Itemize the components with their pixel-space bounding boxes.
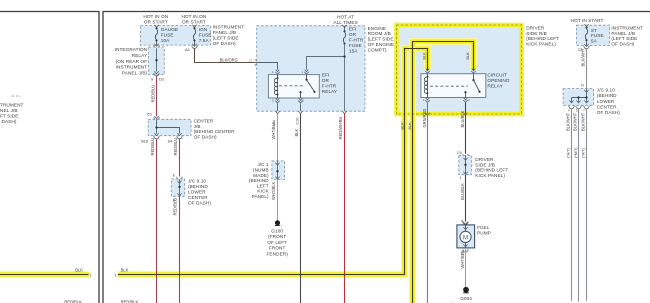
wire inside integration relay [156,48,158,71]
svg-text:FT SIDE: FT SIDE [0,114,18,119]
label EFI OR F-HTR relay [322,73,338,94]
wire WHT/BLK to G100 [277,180,279,221]
svg-text:F-HTR: F-HTR [322,83,337,88]
wire coil to border, connector F4 [277,103,279,111]
svg-text:OR: OR [322,78,330,83]
svg-text:IGN: IGN [199,27,208,32]
wire BLK down to page bottom [300,114,302,303]
label driver side J/B [475,157,508,178]
relay coil [427,74,429,98]
svg-text:BLK/WHT: BLK/WHT [581,112,586,131]
svg-text:C5: C5 [147,112,152,116]
svg-text:BLK: BLK [75,267,83,272]
wire WHT/BLK down to J/C 1 [277,114,279,161]
relay pin connectors top [425,69,429,74]
svg-text:10A: 10A [161,38,170,43]
svg-text:DRIVER: DRIVER [475,157,494,162]
op: circuit opening relay box [421,74,486,98]
integration relay box [149,47,165,75]
svg-text:BLK/WHT: BLK/WHT [580,48,585,67]
core of highlighted wire A [118,49,428,275]
wire RED/BLU continues to page bottom [179,196,181,303]
svg-text:OF DASH): OF DASH) [194,135,217,140]
motor M1 fuel pump [457,225,475,248]
ground G100 [275,220,280,225]
svg-text:FUEL: FUEL [477,225,490,230]
svg-text:(LEFT SIDE: (LEFT SIDE [368,37,394,42]
label instrument panel J/B (right) [611,25,643,46]
svg-text:(NUMB: (NUMB [253,168,269,173]
svg-text:OF DASH): OF DASH) [213,41,236,46]
svg-text:SIDE R/B: SIDE R/B [526,31,547,36]
svg-text:PUMP: PUMP [477,230,491,235]
svg-text:17: 17 [249,59,253,63]
svg-text:J/B: J/B [194,124,201,129]
label fuel pump [477,225,491,235]
svg-text:RED/BLU: RED/BLU [173,198,178,216]
svg-text:INTEGRATION: INTEGRATION [115,47,148,52]
label center J/B [194,118,236,139]
wire BLK/WHT 2 down [578,109,580,302]
svg-text:PANEL J/B): PANEL J/B) [122,70,148,75]
wire BLU/BLK down to driver side J/B [465,103,467,154]
svg-text:(BEHIND: (BEHIND [597,93,617,98]
svg-text:CIRCUIT: CIRCUIT [487,73,507,78]
svg-text:OF DASH): OF DASH) [611,42,634,47]
svg-text:TRUMENT: TRUMENT [0,103,24,108]
label engine room J/B [368,26,395,53]
connector below gauge fuse [156,41,158,46]
svg-text:BLK/WHT: BLK/WHT [565,112,570,131]
highlighted BLK wire B: from page bottom up to relay right pin [413,42,474,303]
wire from fuse with branch to relay switch [307,44,345,112]
driver side R/B highlighted box [397,25,522,114]
svg-text:(BEHIND: (BEHIND [249,178,269,183]
svg-text:KICK PANEL): KICK PANEL) [526,42,556,47]
svg-text:PANEL J/B: PANEL J/B [611,31,635,36]
svg-text:LOWER: LOWER [188,190,206,195]
relay switch [306,75,308,80]
J/C 9.10 box (right) [563,89,594,106]
svg-text:(ON REAR OF: (ON REAR OF [116,59,148,64]
svg-text:CENTER: CENTER [597,104,617,109]
svg-text:D4: D4 [168,140,173,144]
svg-text:F: F [568,108,570,112]
svg-text:WHT/BLK: WHT/BLK [271,182,276,200]
svg-text:FUSE: FUSE [161,33,174,38]
svg-text:RELAY: RELAY [487,83,503,88]
svg-text:RED/BLU: RED/BLU [150,85,155,103]
svg-text:M: M [463,235,468,241]
relay pin connectors bottom [275,98,279,103]
svg-text:OPENING: OPENING [487,78,509,83]
svg-text:PANEL J/B: PANEL J/B [213,30,237,35]
svg-text:OF DASH): OF DASH) [597,110,620,115]
label integration relay [115,47,148,75]
relay dashed link [430,85,468,87]
svg-text:INSTRUMENT: INSTRUMENT [116,65,148,70]
svg-text:(LEFT SIDE: (LEFT SIDE [213,35,239,40]
connector A4 below ign fuse [194,41,196,46]
svg-text:J/C 9.10: J/C 9.10 [597,88,615,93]
svg-text:INSTRUMENT: INSTRUMENT [611,25,643,30]
svg-text:RED/BLU: RED/BLU [173,138,178,156]
wires inside J/C 9.10 [572,89,587,103]
border connector into engine room J/B [254,60,257,65]
svg-text:(BEHIND LEFT: (BEHIND LEFT [475,168,508,173]
wires inside center J/B [157,119,180,133]
svg-text:OR START: OR START [182,20,206,25]
core of highlighted wire B [413,42,474,303]
svg-text:RELAY: RELAY [132,53,148,58]
label circuit opening relay [487,73,509,89]
svg-text:COMPT): COMPT) [368,47,387,52]
wire fuse to border, connector E8 [342,111,346,114]
yellow box dashed border [397,25,522,114]
svg-text:BLK: BLK [423,52,427,60]
wire BLU/BLK to fuel pump [465,175,467,222]
svg-text:1: 1 [115,274,117,278]
wire switch to border, connector C10 [300,103,302,111]
svg-text:E: E [173,173,176,177]
svg-text:BLK/WHT: BLK/WHT [573,112,578,131]
svg-text:EFI: EFI [322,73,330,78]
fuse ST 5A [584,24,588,27]
svg-text:MADE): MADE) [253,173,269,178]
driver side J/B box [459,155,472,174]
relay pin connectors top [275,70,279,75]
svg-text:OF ENGINE: OF ENGINE [368,42,395,47]
svg-text:EFI: EFI [349,26,357,31]
svg-text:LOWER: LOWER [597,99,615,104]
svg-text:WHT/BLK: WHT/BLK [271,121,276,139]
svg-text:OF DASH): OF DASH) [188,201,211,206]
svg-text:GAUGE: GAUGE [161,27,178,32]
svg-text:(*A/T): (*A/T) [567,147,571,158]
wire BLK/ORG inside box to relay coil [257,63,278,70]
svg-text:ROOM J/B: ROOM J/B [368,31,391,36]
svg-text:B18: B18 [141,140,148,144]
wire RED down to page bottom [344,114,346,303]
svg-text:BLU/BLK: BLU/BLK [460,183,465,200]
svg-text:OR: OR [349,32,357,37]
svg-text:F: F [584,108,586,112]
left page: highlighted BLK wire to connector 1 [0,271,89,278]
svg-text:BLK: BLK [466,52,470,60]
svg-text:OR START: OR START [144,20,168,25]
svg-text:ALL TIMES: ALL TIMES [333,20,357,25]
wire BLK/WHT 3 down [586,109,588,301]
svg-text:G004: G004 [460,296,472,301]
relay switch [473,74,475,80]
svg-text:1: 1 [90,274,92,278]
svg-text:HOT IN ON: HOT IN ON [181,14,206,19]
svg-text:ENGINE: ENGINE [368,26,386,31]
svg-text:LEFT: LEFT [257,183,269,188]
svg-text:FENDER): FENDER) [266,252,288,257]
ground G004 [463,287,469,293]
svg-text:DRIVER: DRIVER [526,26,545,31]
J/C 1 box [272,161,285,180]
svg-text:HOT IN ON: HOT IN ON [143,14,168,19]
svg-text:J/C 1: J/C 1 [257,162,269,167]
center J/B box [148,119,191,135]
svg-text:D: D [581,84,584,88]
wire WHT/BLK to G004 [465,248,467,287]
svg-text:(LEFT SIDE: (LEFT SIDE [611,36,637,41]
svg-text:BLK/ORG: BLK/ORG [220,58,238,63]
svg-text:INSTRUMENT: INSTRUMENT [213,25,245,30]
svg-text:PANEL): PANEL) [252,194,269,199]
svg-text:J/C 9.10: J/C 9.10 [188,179,206,184]
svg-text:FUSE: FUSE [591,33,604,38]
svg-text:5A: 5A [591,39,598,44]
svg-text:HOT AT: HOT AT [337,15,354,20]
svg-text:CENTER: CENTER [194,118,214,123]
node: HOT AT ALL TIMES [333,15,357,25]
wire RED/BLU from integration relay to C5 [156,76,158,117]
svg-text:HOT IN START: HOT IN START [571,18,604,23]
svg-text:RELAY: RELAY [322,89,338,94]
connector C3 below ST fuse [586,41,588,46]
svg-text:C10: C10 [295,118,299,125]
label driver side R/B [526,26,559,47]
svg-text:BLK: BLK [121,267,129,272]
svg-text:(BEHIND: (BEHIND [188,184,208,189]
svg-text:BLU/BLK: BLU/BLK [460,110,465,127]
svg-text:BLK: BLK [408,122,412,130]
svg-text:KICK PANEL): KICK PANEL) [475,173,505,178]
svg-text:BLK: BLK [294,128,299,136]
svg-text:(BEHIND CENTER: (BEHIND CENTER [194,129,236,134]
svg-text:CENTER: CENTER [188,195,208,200]
connector B18 [154,133,158,136]
J/C 9.10 box (center) [171,179,184,196]
svg-text:15A: 15A [349,48,358,53]
highlighted BLK wire A: from page edge connector 1 up to relay left pin [118,49,428,275]
svg-text:GRN/RED: GRN/RED [422,109,427,128]
wire BLK/WHT down to J/C 9.10 [586,49,588,89]
svg-text:RED/BLK: RED/BLK [121,299,139,303]
svg-text:F-HTR: F-HTR [349,37,364,42]
svg-text:KICK: KICK [257,189,269,194]
svg-text:DASH): DASH) [2,119,17,124]
op: EFI OR F-HTR relay box [268,75,319,98]
svg-text:FUSE: FUSE [349,43,362,48]
svg-text:C6: C6 [457,151,462,155]
wire RED/BLU right branch down to J/C [179,139,181,177]
relay dashed link [279,85,305,87]
svg-text:BLK: BLK [400,122,404,130]
svg-text:ST: ST [591,28,597,33]
svg-text:G100: G100 [271,228,283,233]
svg-text:(*M/T): (*M/T) [574,147,578,158]
label J/C 9.10 (center) [188,179,211,206]
label J/C 1 [249,162,270,199]
svg-text:WHT/BLK: WHT/BLK [460,250,465,268]
svg-text:RED/BLK: RED/BLK [64,299,82,303]
svg-text:A4: A4 [185,48,190,52]
svg-text:OF LEFT: OF LEFT [267,240,287,245]
svg-text:RED/WHT: RED/WHT [338,120,343,140]
label J/C 9.10 (right) [597,88,620,115]
left page: dashed box fragment [12,95,22,97]
svg-text:FRONT: FRONT [269,246,286,251]
wire GRN/RED down to page bottom [427,103,429,303]
fuse GAUGE 10A [154,25,158,28]
relay coil [277,75,279,98]
svg-text:NEL J/B: NEL J/B [0,108,18,113]
label instrument panel J/B [213,25,245,46]
wire RED/BLU left branch down to page bottom [156,139,158,303]
svg-text:(FRONT: (FRONT [268,234,286,239]
svg-text:9: 9 [151,78,153,82]
svg-text:(BEHIND LEFT: (BEHIND LEFT [526,36,559,41]
left page: clipped label INSTRUMENT PANEL J/B (LEFT SIDE OF DASH) [0,103,24,125]
svg-text:1: 1 [459,176,461,180]
svg-text:RED/BLU: RED/BLU [150,138,155,156]
left page frame (previous sheet border) [0,12,99,303]
fuse EFI OR F-HTR 15A [342,25,346,28]
wire BLK/WHT 1 down [571,109,573,301]
engine room J/B box [257,26,365,111]
svg-text:SIDE J/B: SIDE J/B [475,162,495,167]
instrument panel J/B box (right) [577,25,610,45]
svg-text:(*A/T): (*A/T) [582,147,586,158]
node: HOT IN ON OR START (ign fuse) [181,14,206,24]
wire BLK/ORG from A4 to engine room J/B [195,49,257,63]
relay pin connectors bottom [425,98,429,103]
instrument panel J/B box (top left) [141,26,211,45]
node: HOT IN ON OR START (gauge fuse) [143,14,168,24]
svg-text:D3: D3 [159,78,164,82]
svg-text:7.5A: 7.5A [199,38,210,43]
wire crossings over highlight [156,271,158,278]
fuse IGN 7.5A [192,25,196,28]
connector D4 [177,133,181,136]
svg-text:FUSE: FUSE [199,33,212,38]
